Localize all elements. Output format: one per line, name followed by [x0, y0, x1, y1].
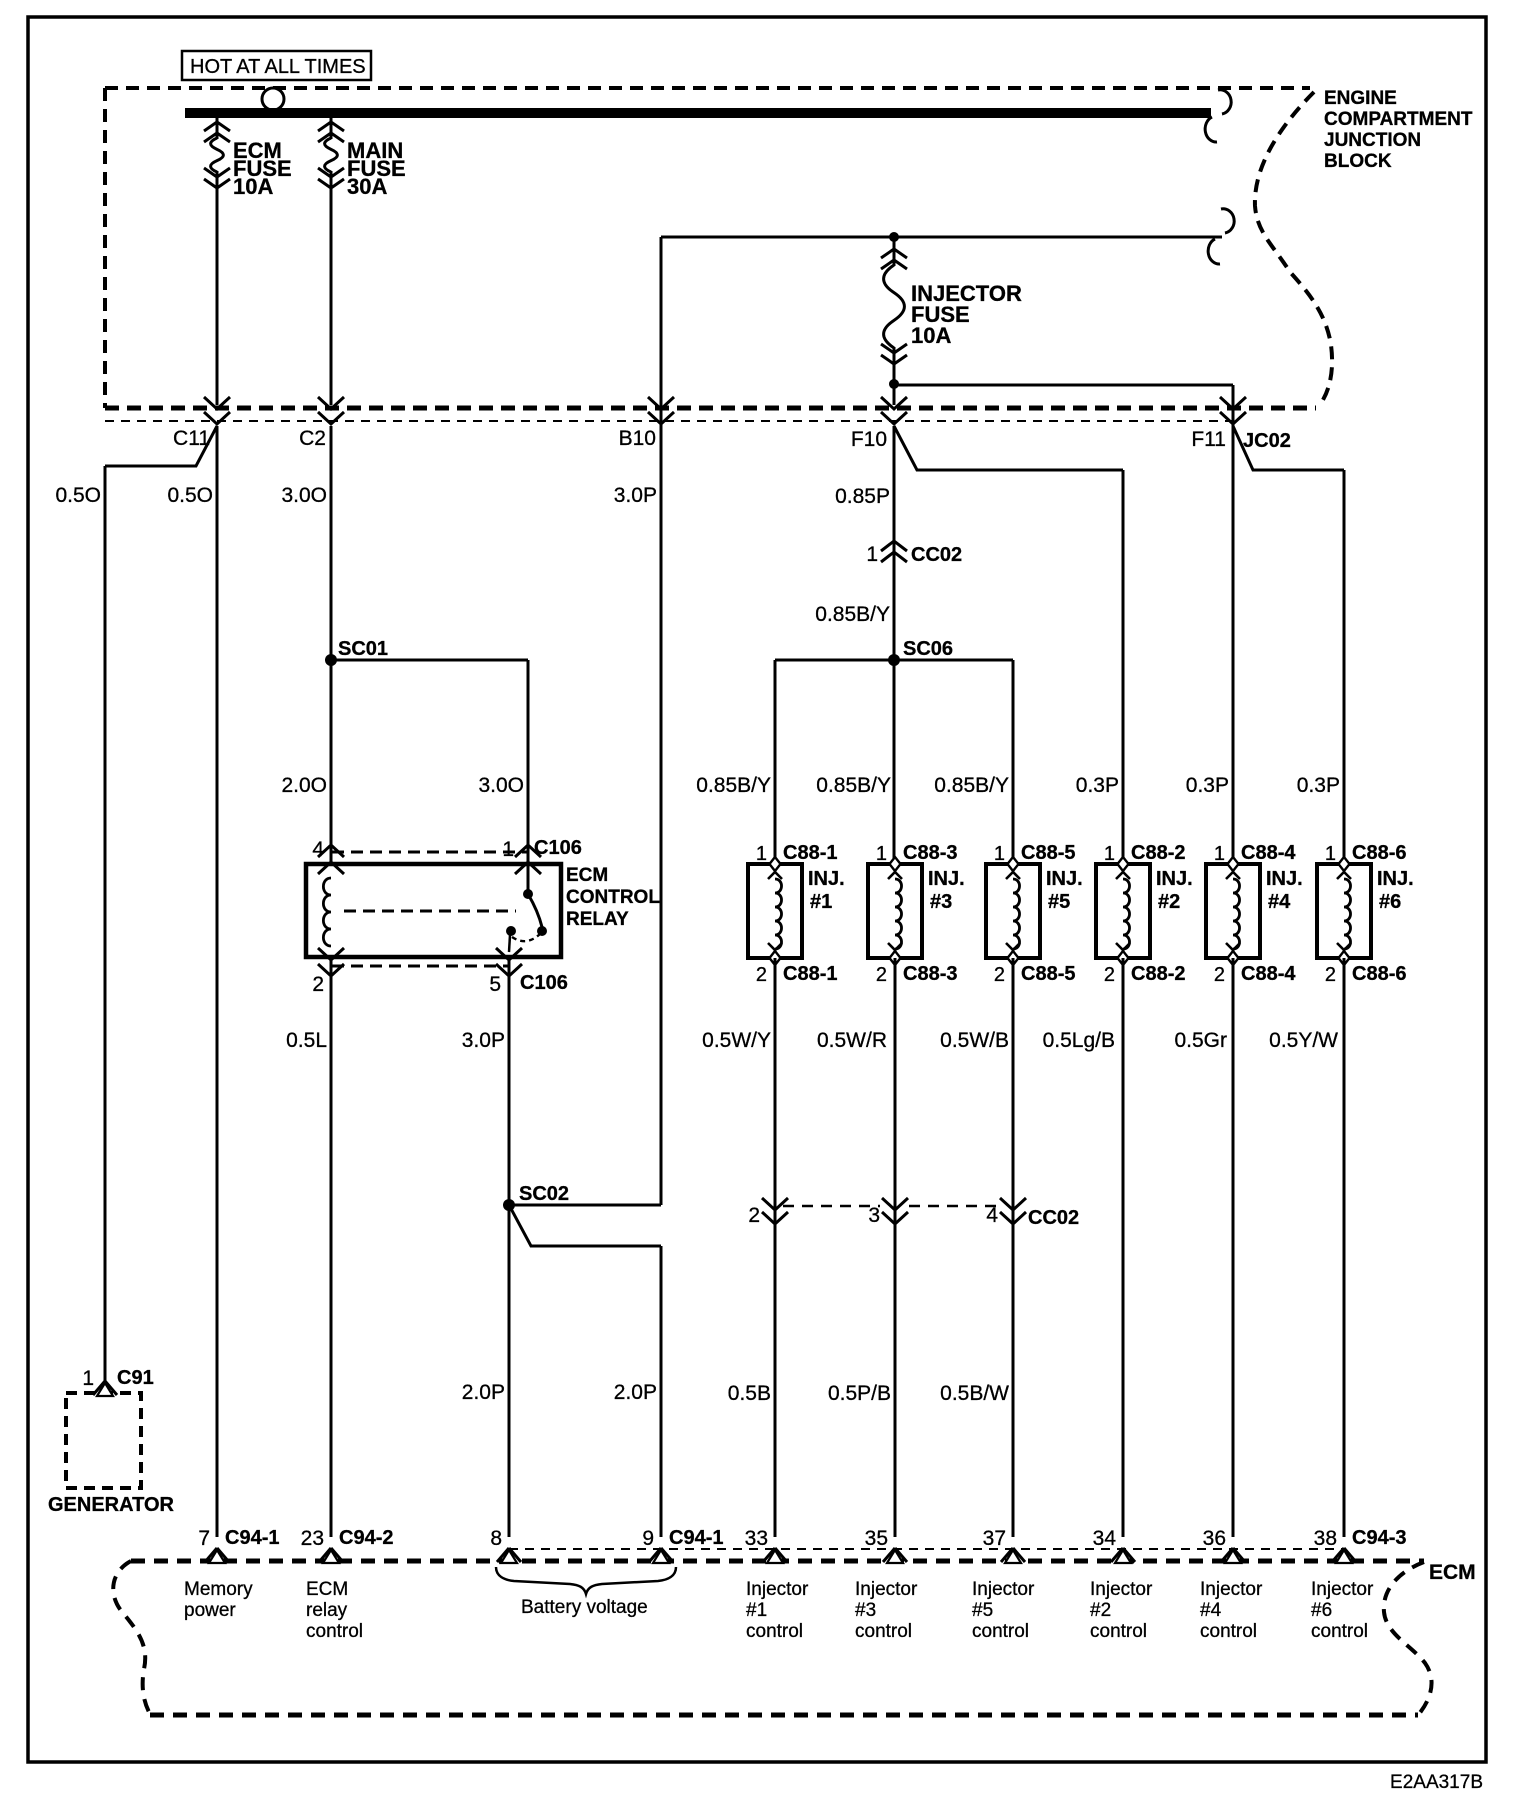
svg-text:C94-3: C94-3	[1352, 1527, 1406, 1549]
svg-text:C88-1: C88-1	[783, 842, 837, 864]
svg-text:C88-6: C88-6	[1352, 842, 1406, 864]
svg-text:1: 1	[502, 838, 514, 861]
svg-text:0.5P/B: 0.5P/B	[828, 1382, 891, 1405]
svg-text:0.3P: 0.3P	[1186, 774, 1229, 797]
svg-text:ECM: ECM	[1429, 1561, 1476, 1584]
svg-text:F10: F10	[851, 428, 887, 451]
svg-text:4: 4	[986, 1204, 998, 1227]
svg-text:2: 2	[312, 973, 324, 996]
svg-text:1: 1	[1104, 843, 1115, 865]
svg-text:C88-4: C88-4	[1241, 963, 1296, 985]
svg-text:2: 2	[756, 964, 767, 986]
svg-text:8: 8	[490, 1527, 502, 1550]
svg-text:#1: #1	[746, 1600, 767, 1621]
svg-text:1: 1	[756, 843, 767, 865]
svg-text:10A: 10A	[233, 174, 273, 199]
svg-text:0.85P: 0.85P	[835, 485, 890, 508]
svg-text:E2AA317B: E2AA317B	[1390, 1772, 1483, 1793]
svg-text:C88-5: C88-5	[1021, 963, 1075, 985]
svg-text:C2: C2	[299, 427, 326, 450]
svg-text:0.5W/B: 0.5W/B	[940, 1029, 1009, 1052]
svg-text:0.5Gr: 0.5Gr	[1174, 1029, 1227, 1052]
svg-text:JUNCTION: JUNCTION	[1324, 130, 1421, 151]
svg-text:#6: #6	[1311, 1600, 1332, 1621]
svg-text:0.5B/W: 0.5B/W	[940, 1382, 1009, 1405]
svg-text:34: 34	[1093, 1527, 1117, 1550]
svg-text:0.3P: 0.3P	[1076, 774, 1119, 797]
svg-text:0.5Y/W: 0.5Y/W	[1269, 1029, 1338, 1052]
svg-text:#3: #3	[930, 891, 952, 913]
svg-text:Injector: Injector	[746, 1579, 809, 1600]
svg-text:F11: F11	[1191, 428, 1226, 451]
svg-text:30A: 30A	[347, 174, 387, 199]
svg-text:INJ.: INJ.	[928, 868, 965, 890]
svg-text:C94-1: C94-1	[225, 1527, 279, 1549]
svg-text:2.0P: 2.0P	[614, 1381, 657, 1404]
svg-text:#5: #5	[1048, 891, 1070, 913]
svg-text:2: 2	[994, 964, 1005, 986]
svg-text:0.85B/Y: 0.85B/Y	[815, 603, 890, 626]
svg-text:Injector: Injector	[972, 1579, 1035, 1600]
svg-text:0.5Lg/B: 0.5Lg/B	[1043, 1029, 1115, 1052]
svg-text:2: 2	[876, 964, 887, 986]
svg-text:4: 4	[312, 838, 324, 861]
svg-text:SC06: SC06	[903, 638, 953, 660]
svg-text:#6: #6	[1379, 891, 1401, 913]
svg-text:Battery voltage: Battery voltage	[521, 1597, 648, 1618]
svg-text:0.5W/Y: 0.5W/Y	[702, 1029, 771, 1052]
svg-text:CC02: CC02	[911, 544, 962, 566]
svg-text:2.0P: 2.0P	[462, 1381, 505, 1404]
svg-text:1: 1	[1325, 843, 1336, 865]
svg-text:SC01: SC01	[338, 638, 388, 660]
svg-text:3.0P: 3.0P	[614, 484, 657, 507]
svg-text:2: 2	[748, 1204, 760, 1227]
svg-text:INJ.: INJ.	[808, 868, 845, 890]
svg-text:Injector: Injector	[1200, 1579, 1263, 1600]
svg-text:INJ.: INJ.	[1377, 868, 1414, 890]
svg-text:GENERATOR: GENERATOR	[48, 1494, 174, 1516]
svg-text:2: 2	[1325, 964, 1336, 986]
svg-text:1: 1	[994, 843, 1005, 865]
svg-text:0.5O: 0.5O	[167, 484, 213, 507]
svg-text:ENGINE: ENGINE	[1324, 88, 1397, 109]
svg-text:HOT AT ALL TIMES: HOT AT ALL TIMES	[190, 56, 366, 78]
svg-text:power: power	[184, 1600, 236, 1621]
svg-text:0.85B/Y: 0.85B/Y	[816, 774, 891, 797]
svg-text:C11: C11	[173, 427, 210, 450]
svg-text:BLOCK: BLOCK	[1324, 151, 1392, 172]
svg-text:#3: #3	[855, 1600, 876, 1621]
svg-text:1: 1	[82, 1367, 94, 1390]
svg-text:36: 36	[1203, 1527, 1226, 1550]
svg-text:C106: C106	[520, 972, 568, 994]
svg-text:0.5L: 0.5L	[286, 1029, 327, 1052]
svg-text:#2: #2	[1090, 1600, 1111, 1621]
svg-text:37: 37	[983, 1527, 1006, 1550]
svg-text:relay: relay	[306, 1600, 348, 1621]
svg-text:#4: #4	[1268, 891, 1291, 913]
svg-text:35: 35	[865, 1527, 888, 1550]
svg-text:0.85B/Y: 0.85B/Y	[934, 774, 1009, 797]
svg-text:B10: B10	[619, 427, 656, 450]
svg-text:Injector: Injector	[855, 1579, 918, 1600]
svg-text:C88-3: C88-3	[903, 963, 957, 985]
svg-text:COMPARTMENT: COMPARTMENT	[1324, 109, 1473, 130]
svg-text:JC02: JC02	[1243, 430, 1291, 452]
svg-text:ECM: ECM	[306, 1579, 348, 1600]
svg-text:C88-3: C88-3	[903, 842, 957, 864]
svg-text:2.0O: 2.0O	[281, 774, 327, 797]
svg-text:1: 1	[1214, 843, 1225, 865]
svg-text:control: control	[1311, 1621, 1368, 1642]
svg-text:1: 1	[866, 543, 878, 566]
svg-text:C88-4: C88-4	[1241, 842, 1296, 864]
svg-text:23: 23	[301, 1527, 324, 1550]
svg-text:RELAY: RELAY	[566, 909, 629, 930]
svg-text:#2: #2	[1158, 891, 1180, 913]
svg-text:3.0O: 3.0O	[478, 774, 524, 797]
svg-text:control: control	[972, 1621, 1029, 1642]
svg-text:C88-6: C88-6	[1352, 963, 1406, 985]
svg-text:control: control	[746, 1621, 803, 1642]
svg-text:3: 3	[868, 1204, 880, 1227]
svg-text:Injector: Injector	[1311, 1579, 1374, 1600]
svg-text:C91: C91	[117, 1367, 154, 1389]
svg-text:1: 1	[876, 843, 887, 865]
svg-text:9: 9	[642, 1527, 654, 1550]
svg-text:#1: #1	[810, 891, 832, 913]
svg-text:control: control	[1090, 1621, 1147, 1642]
svg-text:0.3P: 0.3P	[1297, 774, 1340, 797]
svg-text:38: 38	[1314, 1527, 1337, 1550]
svg-text:33: 33	[745, 1527, 768, 1550]
svg-text:C94-1: C94-1	[669, 1527, 723, 1549]
svg-text:CONTROL: CONTROL	[566, 887, 660, 908]
svg-text:5: 5	[489, 973, 501, 996]
svg-text:C106: C106	[534, 837, 582, 859]
svg-text:INJ.: INJ.	[1046, 868, 1083, 890]
svg-text:0.5O: 0.5O	[55, 484, 101, 507]
svg-text:C88-5: C88-5	[1021, 842, 1075, 864]
svg-text:ECM: ECM	[566, 865, 608, 886]
svg-text:C94-2: C94-2	[339, 1527, 393, 1549]
svg-text:3.0P: 3.0P	[462, 1029, 505, 1052]
svg-text:Injector: Injector	[1090, 1579, 1153, 1600]
svg-text:INJ.: INJ.	[1156, 868, 1193, 890]
svg-text:#5: #5	[972, 1600, 993, 1621]
svg-text:control: control	[1200, 1621, 1257, 1642]
svg-text:10A: 10A	[911, 323, 951, 348]
svg-text:0.85B/Y: 0.85B/Y	[696, 774, 771, 797]
svg-text:7: 7	[198, 1527, 210, 1550]
svg-text:C88-2: C88-2	[1131, 963, 1185, 985]
svg-text:INJ.: INJ.	[1266, 868, 1303, 890]
svg-text:0.5B: 0.5B	[728, 1382, 771, 1405]
svg-text:SC02: SC02	[519, 1183, 569, 1205]
svg-text:CC02: CC02	[1028, 1207, 1079, 1229]
svg-text:control: control	[855, 1621, 912, 1642]
svg-text:#4: #4	[1200, 1600, 1222, 1621]
svg-text:Memory: Memory	[184, 1579, 253, 1600]
svg-text:3.0O: 3.0O	[281, 484, 327, 507]
svg-text:2: 2	[1214, 964, 1225, 986]
svg-text:2: 2	[1104, 964, 1115, 986]
svg-text:0.5W/R: 0.5W/R	[817, 1029, 887, 1052]
svg-text:control: control	[306, 1621, 363, 1642]
svg-text:C88-2: C88-2	[1131, 842, 1185, 864]
svg-text:C88-1: C88-1	[783, 963, 837, 985]
